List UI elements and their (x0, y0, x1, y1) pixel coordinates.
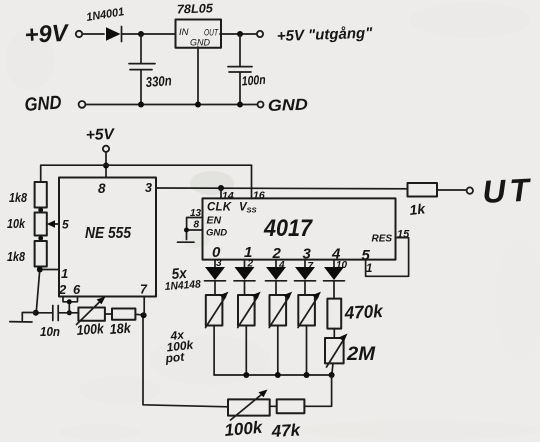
svg-text:7: 7 (140, 283, 148, 297)
wire (333, 329, 335, 338)
terminal +9V (76, 31, 82, 37)
diode D4 (266, 267, 287, 295)
wire out0 stub (214, 260, 216, 267)
wire (122, 33, 175, 35)
wire (143, 315, 228, 407)
diode D3 (234, 267, 255, 295)
wire (270, 405, 277, 407)
node (38, 236, 43, 241)
svg-text:SS: SS (247, 206, 257, 215)
svg-text:100k: 100k (76, 320, 105, 338)
node (67, 310, 72, 315)
wire pin16 drop (251, 165, 253, 198)
svg-text:3: 3 (145, 181, 152, 195)
terminal +5V out (257, 31, 263, 37)
wire (105, 152, 107, 178)
node (329, 372, 335, 378)
svg-text:pot: pot (164, 350, 186, 366)
node (243, 372, 249, 378)
svg-text:GND: GND (206, 228, 227, 239)
svg-text:10n: 10n (40, 324, 60, 339)
wire GND rail (86, 104, 257, 106)
node (141, 312, 147, 318)
node (138, 31, 144, 37)
svg-text:GND: GND (24, 92, 63, 116)
svg-text:8: 8 (194, 220, 200, 231)
svg-text:EN: EN (207, 215, 222, 227)
node (218, 185, 224, 191)
svg-text:IN: IN (179, 27, 189, 38)
wire (82, 33, 104, 35)
resistor R5 1k (408, 183, 438, 197)
wire (36, 312, 52, 314)
capacitor C2 100n (228, 34, 252, 105)
node (33, 310, 39, 316)
svg-text:4017: 4017 (263, 215, 313, 242)
wire bus (214, 374, 332, 376)
node (275, 372, 281, 378)
wire (304, 375, 331, 406)
terminal GND right (258, 102, 264, 108)
terminal UT (467, 187, 473, 193)
wire (36, 267, 59, 313)
svg-text:CLK: CLK (207, 202, 232, 214)
wire top rail (41, 165, 252, 182)
potentiometer P3 100k (269, 292, 292, 375)
svg-text:2M: 2M (346, 344, 376, 365)
svg-text:+5V "utgång": +5V "utgång" (277, 25, 374, 45)
wire (437, 189, 466, 191)
potentiometer P6 100k (228, 390, 270, 421)
ic U3 4017 (203, 198, 396, 264)
svg-text:1k8: 1k8 (7, 249, 26, 264)
svg-text:100k: 100k (224, 418, 265, 440)
svg-text:6: 6 (73, 282, 81, 297)
svg-text:RES: RES (372, 234, 393, 245)
svg-text:NE 555: NE 555 (85, 225, 131, 242)
wire (40, 236, 42, 242)
svg-text:470k: 470k (343, 301, 384, 323)
capacitor C1 330n (129, 34, 155, 105)
node (304, 372, 310, 378)
svg-text:1N4148: 1N4148 (164, 278, 202, 293)
svg-text:GND: GND (190, 38, 211, 48)
potentiometer R2 10k (35, 213, 59, 236)
diode D1 1N4001 (106, 27, 122, 42)
diode D6 (324, 267, 345, 299)
wire pin2 pin6 (63, 297, 78, 313)
wire out4 stub (333, 260, 335, 267)
ground (178, 241, 195, 243)
svg-text:330n: 330n (145, 72, 172, 90)
regulator U1 78L05 (176, 20, 222, 48)
wire (105, 314, 144, 315)
label 4x 100k pot (164, 328, 195, 366)
node (67, 299, 72, 304)
svg-text:14: 14 (222, 190, 234, 202)
potentiometer P5 2M (325, 334, 348, 376)
wire out1 stub (244, 260, 246, 267)
ground left (10, 313, 36, 323)
node (37, 267, 43, 273)
svg-text:2: 2 (58, 282, 67, 297)
wire pin7 stub (143, 297, 145, 316)
ic U2 NE555 (58, 178, 156, 298)
svg-text:5: 5 (62, 218, 69, 232)
svg-text:47k: 47k (270, 420, 302, 441)
wire EN (187, 218, 203, 231)
diode D5 (295, 267, 316, 295)
wire GND pin8 (187, 230, 203, 240)
node (237, 31, 243, 37)
svg-text:16: 16 (253, 190, 265, 202)
resistor R6 470k (327, 299, 341, 329)
svg-text:10k: 10k (7, 216, 26, 231)
potentiometer P2 100k (238, 292, 261, 375)
wire reset loop pin15 to pin1 (366, 238, 409, 277)
svg-text:18k: 18k (109, 319, 132, 337)
svg-text:GND: GND (268, 97, 309, 115)
node (138, 102, 144, 108)
resistor R4 18k (112, 309, 135, 320)
node (237, 102, 243, 108)
potentiometer P4 100k (298, 292, 321, 375)
wire (40, 208, 42, 213)
node (184, 228, 189, 233)
capacitor C3 10n (53, 306, 79, 321)
wire pin3 to 1k (156, 187, 408, 190)
node (38, 208, 43, 213)
paper smudge (80, 171, 234, 404)
svg-text:78L05: 78L05 (177, 1, 215, 16)
svg-text:1: 1 (366, 263, 372, 275)
wire pin14 stub (220, 188, 222, 198)
svg-text:+5V: +5V (86, 126, 116, 144)
node (195, 102, 201, 108)
node (103, 163, 109, 169)
potentiometer P1 100k (206, 292, 229, 375)
resistor R7 47k (277, 399, 305, 413)
svg-text:8: 8 (98, 181, 106, 196)
potentiometer P7 100k (77, 297, 106, 325)
wire out2 stub (275, 260, 277, 267)
svg-text:UT: UT (481, 171, 533, 210)
wire out3 stub (304, 260, 306, 267)
svg-text:1k8: 1k8 (9, 190, 28, 205)
svg-text:+9V: +9V (24, 20, 70, 49)
terminal GND left (79, 101, 86, 108)
svg-text:1k: 1k (409, 200, 427, 218)
resistor R3 1k8 (35, 241, 47, 267)
diode D2 (205, 267, 226, 295)
svg-text:100n: 100n (241, 72, 266, 89)
wire (220, 33, 256, 35)
terminal +5V rail (103, 146, 109, 152)
svg-text:3: 3 (303, 246, 312, 263)
wire U1 gnd (197, 47, 199, 105)
svg-text:1: 1 (61, 266, 68, 281)
resistor R1 1k8 (35, 182, 47, 208)
